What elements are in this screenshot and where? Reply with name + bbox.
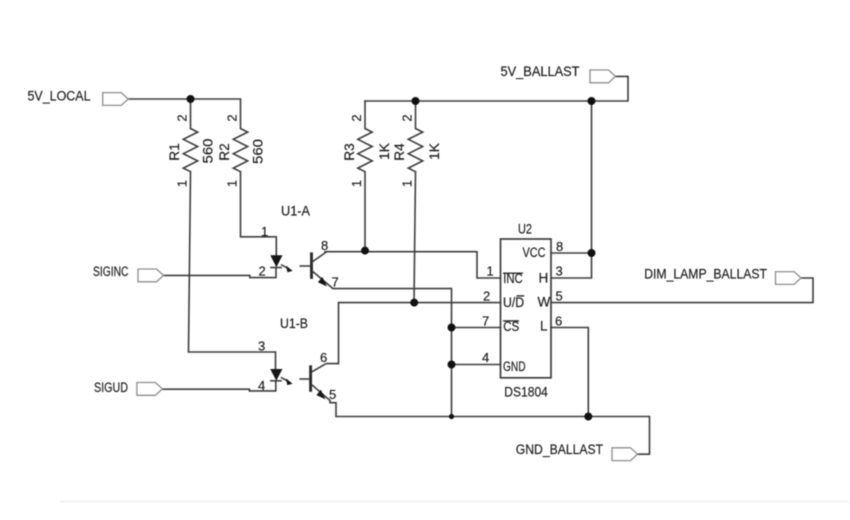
wire L pin6 to ground: [551, 328, 588, 417]
svg-text:2: 2: [225, 114, 240, 121]
svg-text:U1-B: U1-B: [280, 316, 308, 331]
connector SIGUD: [137, 383, 163, 396]
junction R3 bottom: [361, 247, 369, 255]
opto-coupler U1-A light arrow: [281, 265, 293, 273]
wire SIGINC to U1-A pin2: [164, 268, 277, 278]
IC U2 D overline: [517, 295, 525, 297]
IC U2 INC overline: [503, 272, 523, 274]
svg-text:SIGINC: SIGINC: [93, 264, 129, 279]
wire SIGUD to U1-B pin4: [162, 381, 275, 391]
svg-text:1: 1: [261, 224, 268, 239]
junction R4 top: [412, 97, 420, 105]
wire R3 bottom lead: [364, 172, 366, 251]
svg-text:W: W: [538, 295, 551, 310]
IC U2 body: [501, 239, 552, 378]
svg-text:2: 2: [483, 289, 490, 304]
junction 5V_LOCAL R1: [187, 95, 195, 103]
svg-text:2: 2: [400, 114, 415, 121]
opto-coupler U1-B LED: [270, 369, 282, 381]
junction VCC pin8: [588, 249, 596, 257]
wire R3 top lead: [364, 101, 366, 129]
opto-coupler U1-A LED: [270, 255, 282, 267]
svg-text:1K: 1K: [427, 143, 442, 160]
svg-text:2: 2: [349, 114, 364, 121]
junction CS pin7: [448, 324, 456, 332]
wire 5V_BALLAST bus: [365, 76, 628, 101]
junction GND pin4: [448, 361, 456, 369]
svg-text:7: 7: [332, 275, 339, 290]
opto-coupler U1-B light arrow: [281, 377, 293, 385]
svg-text:1: 1: [349, 180, 364, 187]
svg-text:5V_LOCAL: 5V_LOCAL: [28, 89, 91, 104]
svg-text:SIGUD: SIGUD: [94, 380, 128, 395]
svg-text:7: 7: [482, 314, 489, 329]
svg-text:5: 5: [556, 289, 563, 304]
junction R4 bottom U/D: [410, 299, 418, 307]
resistor R3: [358, 129, 372, 172]
svg-text:GND_BALLAST: GND_BALLAST: [516, 442, 603, 457]
svg-text:U2: U2: [518, 222, 532, 237]
svg-text:1K: 1K: [377, 143, 392, 160]
wire VCC vertical and H stub: [551, 101, 592, 278]
svg-text:8: 8: [556, 239, 563, 254]
connector GND_BALLAST: [612, 448, 638, 461]
svg-text:560: 560: [201, 139, 216, 164]
svg-text:4: 4: [258, 378, 265, 393]
svg-text:U/D: U/D: [503, 295, 524, 310]
wire ground bus to GND_BALLAST: [336, 417, 650, 455]
svg-text:3: 3: [556, 264, 563, 279]
svg-text:2: 2: [175, 114, 190, 121]
opto-coupler U1-B phototransistor: [299, 364, 338, 417]
svg-text:INC: INC: [503, 271, 523, 286]
svg-text:560: 560: [251, 139, 266, 164]
junction L pin6 ground: [584, 413, 592, 421]
IC U2 CS overline: [503, 320, 519, 322]
svg-text:U1-A: U1-A: [281, 204, 310, 219]
wire U/D net from U1-B collector: [339, 303, 501, 364]
svg-text:8: 8: [321, 238, 328, 253]
svg-text:1: 1: [175, 180, 190, 187]
wire U1-A collector to U2 INC pin1: [325, 252, 501, 278]
svg-text:6: 6: [320, 350, 327, 365]
svg-text:DS1804: DS1804: [504, 385, 548, 400]
connector 5V_LOCAL: [103, 93, 129, 106]
svg-text:R2: R2: [217, 143, 232, 161]
resistor R4: [408, 129, 422, 172]
svg-text:5: 5: [329, 387, 336, 402]
wire R4 top lead: [415, 101, 417, 129]
svg-text:5V_BALLAST: 5V_BALLAST: [501, 64, 580, 79]
resistor R2: [233, 129, 247, 172]
svg-text:1: 1: [400, 180, 415, 187]
connector SIGINC: [138, 269, 164, 282]
svg-text:6: 6: [555, 314, 562, 329]
scan artifact bottom: [60, 501, 850, 503]
svg-text:4: 4: [482, 350, 489, 365]
wire W pin5 to DIM_LAMP_BALLAST: [551, 278, 813, 303]
svg-text:CS: CS: [503, 319, 519, 334]
wire 5V_LOCAL bus to R2: [128, 99, 240, 129]
junction 5V_BALLAST vertical: [588, 97, 596, 105]
opto-coupler U1-A phototransistor: [300, 252, 334, 289]
connector DIM_LAMP_BALLAST: [776, 272, 802, 285]
svg-text:L: L: [540, 319, 548, 334]
svg-text:2: 2: [259, 264, 266, 279]
svg-text:H: H: [539, 271, 549, 286]
svg-text:R4: R4: [392, 143, 407, 161]
wire R2 bottom to U1-A pin1 route: [241, 172, 277, 256]
junction ground bus small: [449, 414, 454, 419]
wire R1 top lead: [190, 99, 192, 129]
resistor R1: [183, 129, 197, 172]
wire R4 bottom lead: [414, 172, 416, 303]
connector 5V_BALLAST: [590, 70, 616, 83]
svg-text:3: 3: [258, 339, 265, 354]
svg-text:R1: R1: [167, 143, 182, 161]
svg-text:GND: GND: [503, 359, 526, 374]
svg-text:VCC: VCC: [523, 245, 546, 260]
wire R1 bottom to U1-B pin3 route: [189, 172, 276, 370]
svg-text:DIM_LAMP_BALLAST: DIM_LAMP_BALLAST: [644, 267, 767, 282]
wire U1-A emitter to ground with CS and GND stubs: [333, 289, 501, 417]
svg-text:1: 1: [487, 264, 494, 279]
svg-text:1: 1: [225, 180, 240, 187]
svg-text:R3: R3: [342, 143, 357, 161]
